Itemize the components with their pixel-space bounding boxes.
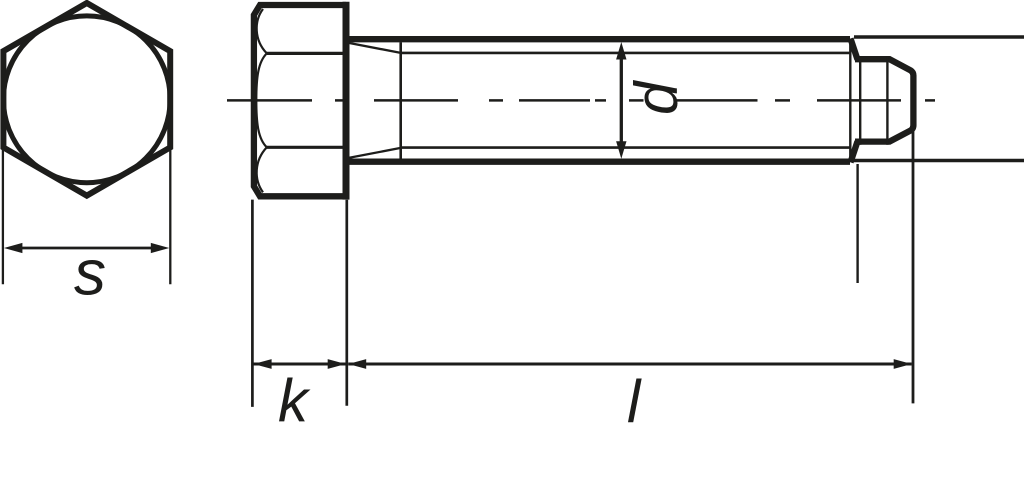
extension line below head right [345, 200, 348, 406]
svg-text:l: l [627, 368, 642, 435]
arrowhead d up [616, 42, 626, 60]
shank major diameter bottom line [349, 159, 850, 165]
bolt head right edge (under-head face) [343, 2, 350, 200]
continuation line bottom right [854, 159, 1024, 162]
point chamfer start line [886, 56, 888, 145]
full thread start line [399, 42, 402, 159]
arrowhead k right [328, 359, 346, 369]
dimension line l [348, 363, 912, 366]
arrowhead l left [348, 359, 366, 369]
thread runout slant bottom [349, 148, 400, 158]
arrowhead s right [151, 243, 170, 253]
bottom facet arc [257, 147, 267, 192]
step chamfer top [851, 39, 858, 60]
thread minor diameter bottom line [401, 146, 851, 149]
lower facet line [267, 146, 346, 149]
extension line right of s [169, 148, 171, 284]
centerline [227, 99, 935, 102]
continuation line top right [854, 35, 1024, 38]
dimension line s [18, 247, 155, 250]
middle facet arc [256, 53, 267, 147]
step chamfer bottom [851, 141, 858, 162]
dog point outline [855, 59, 913, 141]
arrowhead k left [254, 359, 272, 369]
svg-text:k: k [278, 368, 311, 435]
extension line below head left [251, 200, 254, 407]
extension line left of s [2, 148, 4, 284]
arrowhead d down [616, 141, 626, 159]
svg-text:s: s [74, 237, 106, 309]
thread end line [849, 42, 851, 158]
svg-text:d: d [623, 80, 690, 115]
top facet arc [257, 9, 267, 53]
shank major diameter top line [349, 36, 850, 42]
arrowhead s left [4, 243, 23, 253]
arrowhead l right [894, 359, 912, 369]
thread minor diameter top line [401, 52, 851, 55]
bolt head outline side view [254, 5, 346, 196]
chamfer circle on hex head [3, 16, 170, 183]
upper facet line [267, 52, 346, 55]
hex head end view hexagon [3, 3, 170, 196]
extension line thread end [856, 164, 858, 283]
dimension line d [620, 56, 623, 145]
dog point boundary line [859, 56, 861, 145]
thread runout slant top [349, 43, 400, 53]
extension line bolt end [912, 131, 915, 403]
dimension line k [254, 363, 346, 366]
